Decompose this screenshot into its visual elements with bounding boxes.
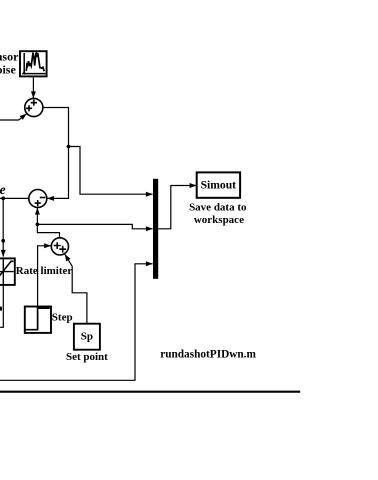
svg-text:workspace: workspace (194, 214, 244, 226)
wire rate limiter output down and off left (0, 285, 3, 327)
node junction on set point wire (36, 223, 40, 227)
svg-text:e: e (0, 182, 6, 197)
block Sp (Set point constant) (74, 324, 100, 350)
svg-text:Save data to: Save data to (189, 202, 247, 214)
label Save data to workspace (189, 202, 247, 227)
sum S1 (25, 98, 43, 116)
svg-text:Sp: Sp (81, 331, 93, 343)
wire Step output to sum S3 (38, 246, 51, 307)
label Sensor noise (clipped at left edge) (0, 49, 19, 76)
node junction on measurement wire (67, 145, 71, 149)
node junction on e wire (1, 239, 5, 243)
wire node e down to rate limiter (2, 198, 4, 256)
block noise source (Band-Limited White Noise) (20, 51, 47, 76)
svg-text:Step: Step (52, 311, 73, 323)
svg-text:nsor: nsor (0, 49, 19, 63)
wire junction to mux input 2 (37, 224, 152, 228)
svg-text:Set point: Set point (66, 351, 108, 363)
block Step (25, 307, 51, 333)
sum S2 (error sum) (29, 190, 47, 208)
block Rate limiter (0, 258, 15, 285)
wire sum S1 to sum S2 (noisy measurement) (43, 108, 69, 199)
wire sum S3 output up to sum S2 (37, 208, 59, 238)
wire noise block to sum S1 (32, 77, 34, 98)
wire long baseline (0, 391, 300, 393)
wire junction to mux input 1 (69, 147, 153, 195)
block Simout (197, 172, 240, 197)
svg-text:oise: oise (0, 63, 16, 77)
sum S3 (set point sum) (51, 238, 68, 255)
wire plant measurement from left edge to mux input 3 (0, 264, 153, 381)
svg-text:rundashotPIDwn.m: rundashotPIDwn.m (160, 349, 256, 361)
node e (1, 197, 5, 201)
wire plant output into sum S1 (diagonal) (0, 114, 27, 120)
wire Sp output to sum S3 (diagonal) (65, 254, 87, 323)
wire error output to left edge (0, 197, 29, 199)
cut-off block corner at left edge (0, 307, 2, 311)
mux (153, 179, 158, 279)
wire mux output to Simout (158, 186, 196, 229)
svg-text:Simout: Simout (201, 179, 237, 192)
svg-text:Rate limiter: Rate limiter (16, 265, 73, 277)
